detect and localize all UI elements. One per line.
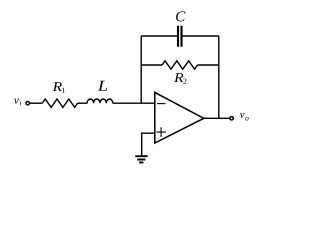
- label L: [98, 81, 108, 91]
- label R2: [174, 73, 186, 84]
- inductor L: [87, 99, 113, 103]
- wire: top rail right segment from capacitor: [183, 35, 219, 37]
- wire: feedback right vertical down to output node: [218, 36, 220, 118]
- wire: L to op-amp inverting input (node A): [113, 102, 155, 104]
- capacitor C: [178, 26, 182, 47]
- resistor R1: [42, 99, 77, 107]
- wire: op-amp output to terminal: [204, 117, 230, 119]
- label R1: [53, 82, 65, 93]
- ground: [135, 156, 147, 162]
- output terminal v_o: [230, 117, 233, 120]
- op-amp non-inverting input marker (+): [156, 127, 166, 137]
- wire: R2 right lead: [198, 64, 219, 66]
- wire: top rail left segment to capacitor: [141, 35, 177, 37]
- wire: feedback left vertical (node A up to feedback rails): [140, 36, 142, 103]
- wire: R1 to L: [78, 102, 88, 104]
- wire: v_i terminal to R1: [30, 102, 42, 104]
- wire: non-inverting input to ground: [142, 133, 155, 155]
- input terminal v_i: [26, 102, 29, 105]
- op-amp U1: [155, 92, 204, 143]
- label C: [176, 11, 185, 21]
- label v_i: [14, 99, 21, 106]
- resistor R2: [162, 61, 197, 69]
- op-amp inverting input marker (-): [157, 103, 165, 105]
- label v_o: [240, 113, 249, 121]
- wire: R2 left lead: [141, 64, 162, 66]
